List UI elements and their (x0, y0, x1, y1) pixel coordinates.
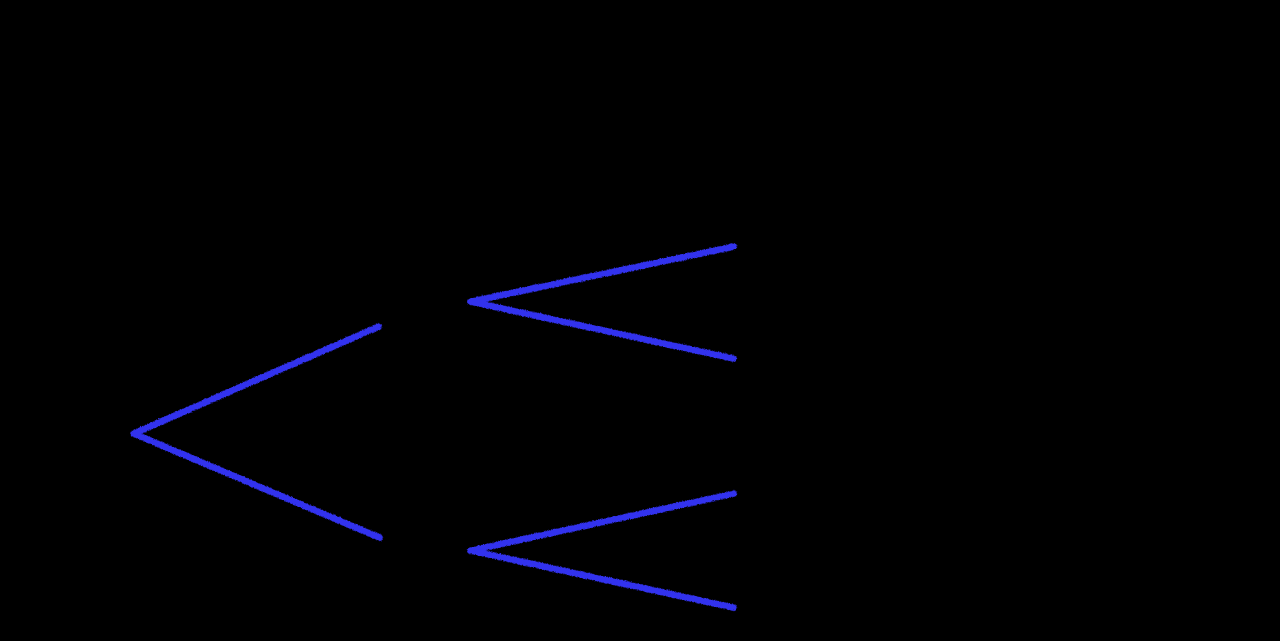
wire: branch root to lower node (133, 433, 379, 537)
wire: upper junction to outcome 2 (470, 301, 733, 358)
wire: branch root to upper node (133, 326, 378, 433)
wire: lower junction to outcome 4 (470, 550, 733, 607)
wire: upper junction to outcome 1 (470, 246, 733, 301)
node lower junction (467, 547, 474, 554)
node upper junction (467, 298, 474, 305)
wire: lower junction to outcome 3 (470, 493, 733, 550)
node root (130, 430, 137, 437)
